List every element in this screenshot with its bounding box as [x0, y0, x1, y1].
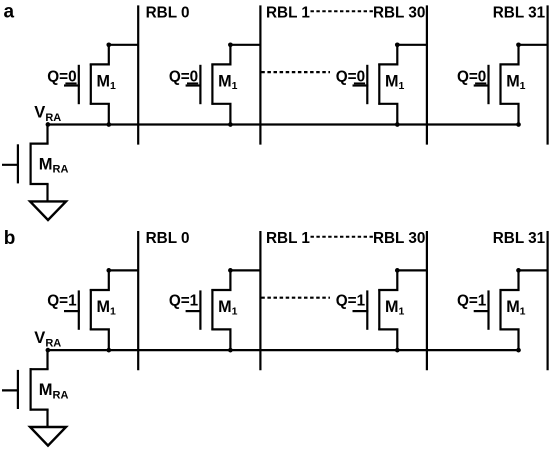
- svg-text:RBL 31: RBL 31: [493, 5, 546, 22]
- svg-text:RBL 30: RBL 30: [373, 230, 425, 247]
- svg-text:RBL 30: RBL 30: [373, 5, 425, 22]
- svg-text:RBL 31: RBL 31: [493, 230, 546, 247]
- svg-text:M1: M1: [385, 298, 404, 317]
- svg-text:M1: M1: [97, 298, 116, 317]
- svg-text:RBL 0: RBL 0: [146, 5, 190, 22]
- svg-text:a: a: [4, 1, 15, 22]
- svg-text:Q=1: Q=1: [457, 292, 487, 309]
- svg-text:RBL 0: RBL 0: [146, 230, 190, 247]
- svg-text:M1: M1: [506, 298, 525, 317]
- svg-text:MRA: MRA: [39, 156, 69, 176]
- svg-text:M1: M1: [218, 73, 237, 92]
- svg-text:MRA: MRA: [39, 381, 69, 401]
- svg-text:M1: M1: [506, 73, 525, 92]
- svg-text:RBL 1: RBL 1: [266, 5, 310, 22]
- svg-text:VRA: VRA: [34, 104, 61, 124]
- svg-text:M1: M1: [385, 73, 404, 92]
- svg-text:VRA: VRA: [34, 329, 61, 349]
- svg-text:Q=1: Q=1: [336, 292, 366, 309]
- svg-text:M1: M1: [218, 298, 237, 317]
- svg-text:RBL 1: RBL 1: [266, 230, 310, 247]
- svg-text:Q=1: Q=1: [47, 292, 77, 309]
- svg-text:M1: M1: [97, 73, 116, 92]
- svg-text:Q=1: Q=1: [169, 292, 199, 309]
- svg-text:b: b: [4, 228, 16, 249]
